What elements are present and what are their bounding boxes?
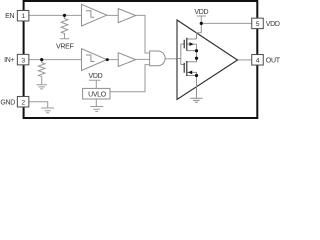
svg-text:GND: GND [0, 99, 15, 106]
svg-text:IN+: IN+ [4, 57, 14, 64]
svg-text:UVLO: UVLO [88, 92, 107, 99]
svg-text:VREF: VREF [56, 44, 73, 51]
svg-text:OUT: OUT [266, 57, 280, 64]
svg-text:VDD: VDD [89, 73, 103, 80]
svg-text:2: 2 [21, 99, 25, 106]
svg-text:EN: EN [5, 13, 14, 20]
svg-text:VDD: VDD [266, 21, 280, 28]
svg-text:3: 3 [21, 57, 25, 64]
svg-text:5: 5 [256, 21, 260, 28]
svg-text:4: 4 [256, 57, 260, 64]
svg-text:VDD: VDD [194, 9, 208, 16]
svg-text:1: 1 [21, 13, 25, 20]
